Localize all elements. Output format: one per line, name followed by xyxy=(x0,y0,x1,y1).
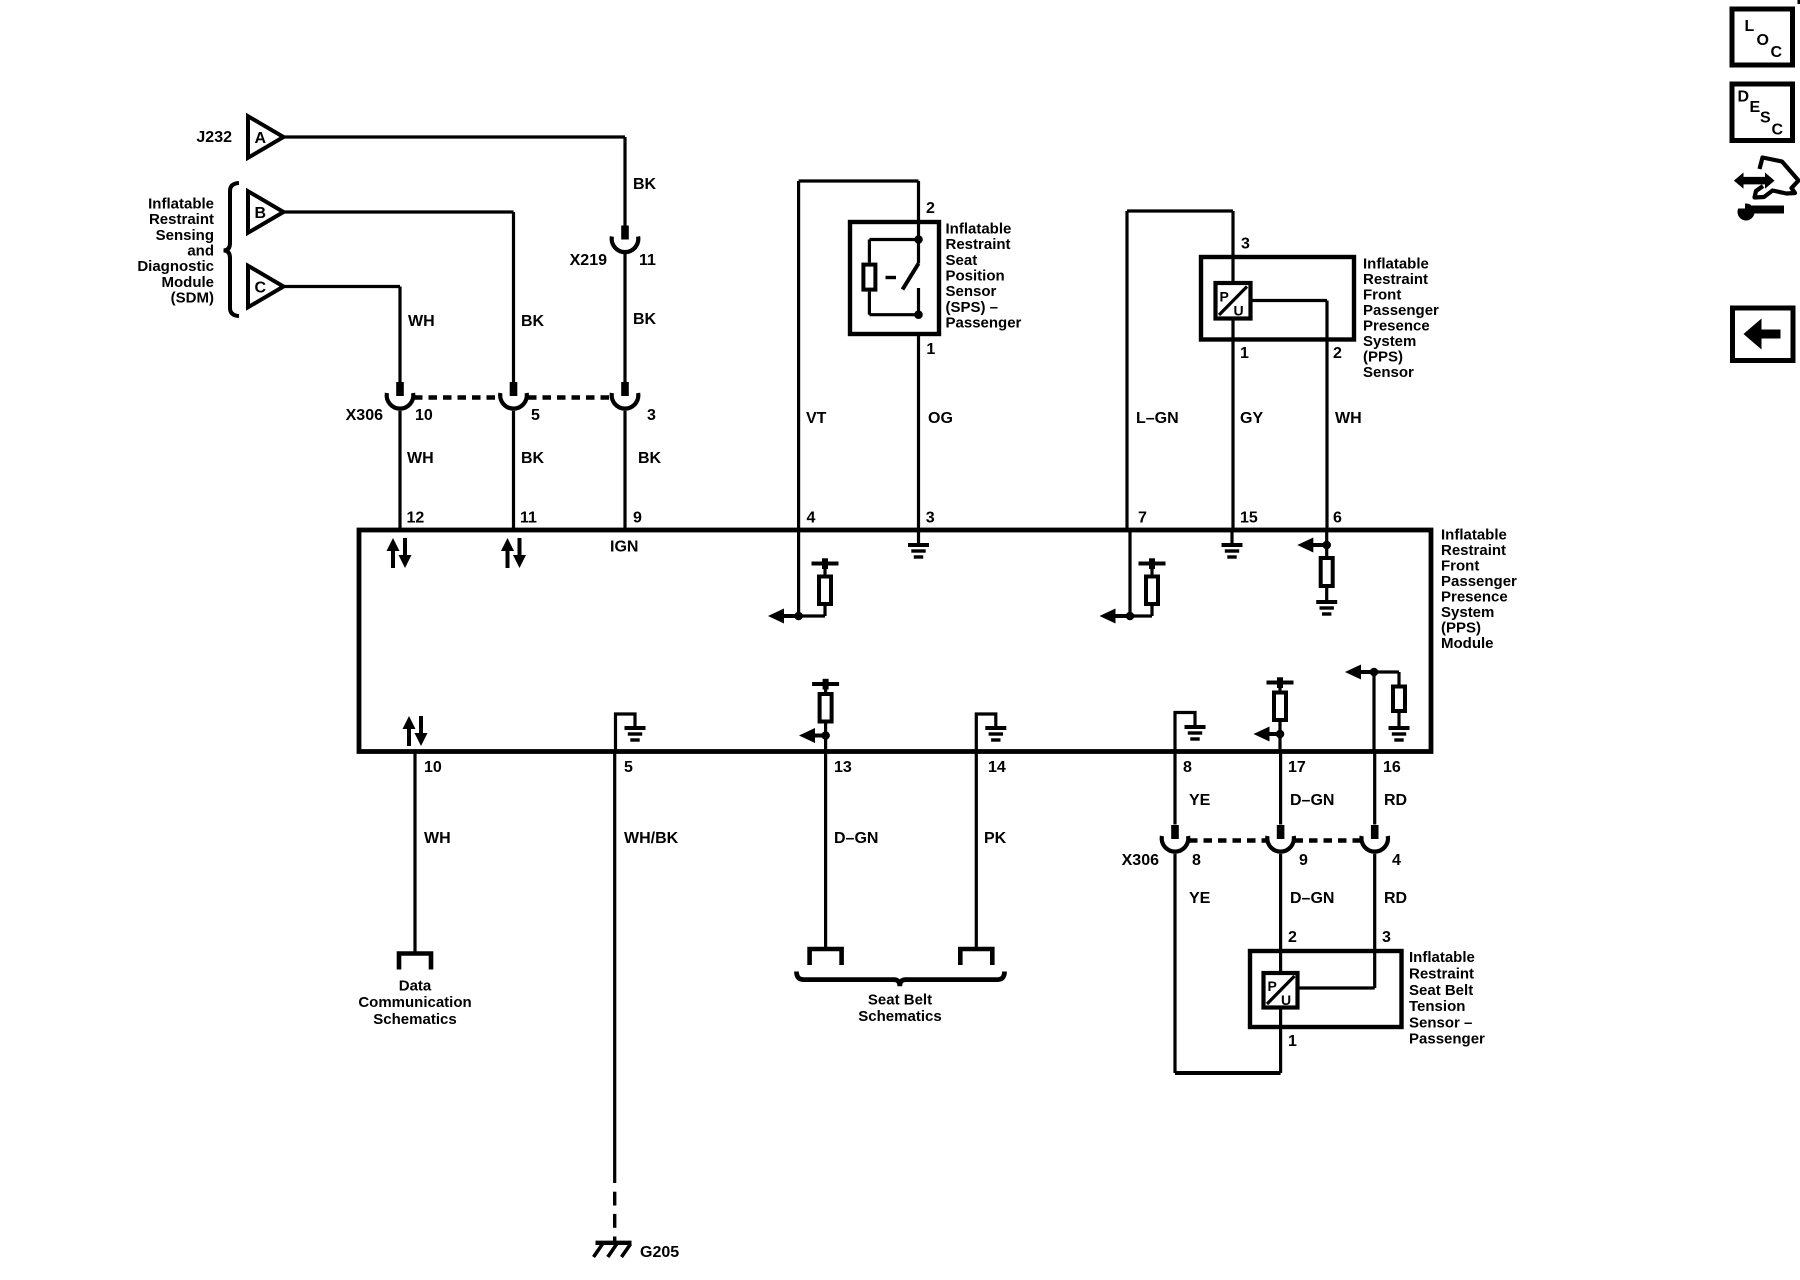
svg-text:4: 4 xyxy=(1392,852,1401,869)
svg-text:Presence: Presence xyxy=(1441,589,1508,606)
svg-text:Front: Front xyxy=(1363,286,1401,303)
svg-text:BK: BK xyxy=(633,311,657,328)
svg-text:3: 3 xyxy=(1241,236,1250,253)
svg-text:3: 3 xyxy=(1382,929,1391,946)
svg-text:3: 3 xyxy=(647,407,656,424)
svg-text:(PPS): (PPS) xyxy=(1441,620,1481,637)
svg-text:C: C xyxy=(1772,122,1784,139)
svg-text:10: 10 xyxy=(424,759,442,776)
svg-text:J232: J232 xyxy=(196,129,232,146)
svg-text:15: 15 xyxy=(1240,510,1258,527)
svg-text:C: C xyxy=(1771,44,1783,61)
svg-text:8: 8 xyxy=(1183,759,1192,776)
svg-text:Seat: Seat xyxy=(946,252,978,269)
svg-text:7: 7 xyxy=(1138,510,1147,527)
svg-text:L: L xyxy=(1745,18,1755,35)
svg-text:(SPS) –: (SPS) – xyxy=(946,299,999,316)
svg-text:1: 1 xyxy=(1288,1033,1297,1050)
svg-text:Restraint: Restraint xyxy=(149,211,214,228)
svg-text:Module: Module xyxy=(162,274,215,291)
svg-text:Sensor –: Sensor – xyxy=(1409,1014,1472,1031)
svg-text:D: D xyxy=(1738,89,1750,106)
svg-text:O: O xyxy=(1757,32,1769,49)
svg-text:Schematics: Schematics xyxy=(373,1011,456,1028)
svg-text:11: 11 xyxy=(520,510,537,527)
svg-text:1: 1 xyxy=(926,341,935,358)
svg-text:Inflatable: Inflatable xyxy=(1363,255,1429,272)
svg-text:4: 4 xyxy=(807,510,816,527)
svg-text:X306: X306 xyxy=(1122,852,1159,869)
svg-text:10: 10 xyxy=(415,407,433,424)
svg-text:B: B xyxy=(255,205,267,222)
svg-text:Restraint: Restraint xyxy=(1409,966,1474,983)
svg-text:Restraint: Restraint xyxy=(1441,542,1506,559)
svg-text:Schematics: Schematics xyxy=(858,1008,941,1025)
svg-text:8: 8 xyxy=(1192,852,1201,869)
svg-text:Presence: Presence xyxy=(1363,317,1430,334)
svg-text:Passenger: Passenger xyxy=(1363,302,1439,319)
svg-text:C: C xyxy=(255,280,267,297)
svg-text:(PPS): (PPS) xyxy=(1363,348,1403,365)
svg-text:6: 6 xyxy=(1333,510,1342,527)
svg-text:Front: Front xyxy=(1441,558,1479,575)
svg-text:WH: WH xyxy=(407,450,434,467)
svg-text:PK: PK xyxy=(984,830,1007,847)
svg-text:Passenger: Passenger xyxy=(1441,573,1517,590)
svg-text:5: 5 xyxy=(624,759,633,776)
svg-text:Seat Belt: Seat Belt xyxy=(868,991,932,1008)
svg-text:X219: X219 xyxy=(570,252,607,269)
svg-text:Inflatable: Inflatable xyxy=(148,195,214,212)
svg-text:D–GN: D–GN xyxy=(834,830,878,847)
svg-text:9: 9 xyxy=(1299,852,1308,869)
svg-text:WH: WH xyxy=(424,830,451,847)
svg-text:Tension: Tension xyxy=(1409,998,1465,1015)
svg-text:9: 9 xyxy=(633,510,642,527)
svg-text:2: 2 xyxy=(1288,929,1297,946)
svg-text:Diagnostic: Diagnostic xyxy=(137,258,214,275)
svg-text:RD: RD xyxy=(1384,890,1407,907)
svg-text:System: System xyxy=(1441,604,1494,621)
svg-text:Sensing: Sensing xyxy=(156,227,214,244)
svg-text:D–GN: D–GN xyxy=(1290,792,1334,809)
svg-text:Inflatable: Inflatable xyxy=(1409,949,1475,966)
svg-text:RD: RD xyxy=(1384,792,1407,809)
svg-text:2: 2 xyxy=(1333,345,1342,362)
svg-text:5: 5 xyxy=(531,407,540,424)
svg-text:2: 2 xyxy=(926,200,935,217)
svg-text:Passenger: Passenger xyxy=(946,315,1022,332)
svg-text:Passenger: Passenger xyxy=(1409,1031,1485,1048)
svg-text:YE: YE xyxy=(1189,890,1211,907)
svg-text:16: 16 xyxy=(1383,759,1401,776)
svg-text:IGN: IGN xyxy=(610,539,638,556)
svg-text:Restraint: Restraint xyxy=(946,236,1011,253)
svg-text:WH: WH xyxy=(1335,410,1362,427)
svg-text:X306: X306 xyxy=(346,407,383,424)
svg-text:Position: Position xyxy=(946,268,1005,285)
svg-text:Sensor: Sensor xyxy=(1363,364,1414,381)
svg-text:Inflatable: Inflatable xyxy=(946,220,1012,237)
svg-text:17: 17 xyxy=(1288,759,1306,776)
svg-text:Communication: Communication xyxy=(358,994,471,1011)
svg-text:3: 3 xyxy=(926,510,935,527)
svg-text:Seat Belt: Seat Belt xyxy=(1409,982,1473,999)
svg-text:G205: G205 xyxy=(640,1244,679,1261)
svg-text:BK: BK xyxy=(521,450,545,467)
svg-text:Restraint: Restraint xyxy=(1363,271,1428,288)
svg-text:D–GN: D–GN xyxy=(1290,890,1334,907)
svg-text:13: 13 xyxy=(834,759,852,776)
svg-text:VT: VT xyxy=(806,410,827,427)
svg-text:1: 1 xyxy=(1240,345,1249,362)
svg-text:P: P xyxy=(1220,289,1229,305)
svg-text:L–GN: L–GN xyxy=(1136,410,1179,427)
svg-text:BK: BK xyxy=(638,450,662,467)
svg-text:WH: WH xyxy=(408,313,435,330)
svg-text:(SDM): (SDM) xyxy=(171,290,214,307)
svg-text:YE: YE xyxy=(1189,792,1211,809)
svg-text:P: P xyxy=(1268,978,1277,994)
svg-text:Inflatable: Inflatable xyxy=(1441,527,1507,544)
svg-text:14: 14 xyxy=(988,759,1006,776)
svg-text:11: 11 xyxy=(639,252,656,269)
svg-text:S: S xyxy=(1760,110,1771,127)
svg-text:BK: BK xyxy=(521,313,545,330)
svg-text:E: E xyxy=(1750,99,1761,116)
svg-text:GY: GY xyxy=(1240,410,1263,427)
svg-text:BK: BK xyxy=(633,176,657,193)
svg-text:and: and xyxy=(187,243,214,260)
svg-text:Sensor: Sensor xyxy=(946,283,997,300)
svg-text:12: 12 xyxy=(407,510,425,527)
svg-text:System: System xyxy=(1363,333,1416,350)
svg-text:A: A xyxy=(255,130,267,147)
svg-text:Data: Data xyxy=(399,977,432,994)
svg-text:OG: OG xyxy=(928,410,953,427)
svg-text:U: U xyxy=(1281,992,1291,1008)
svg-text:U: U xyxy=(1234,303,1244,319)
svg-text:WH/BK: WH/BK xyxy=(624,830,679,847)
svg-text:Module: Module xyxy=(1441,635,1494,652)
